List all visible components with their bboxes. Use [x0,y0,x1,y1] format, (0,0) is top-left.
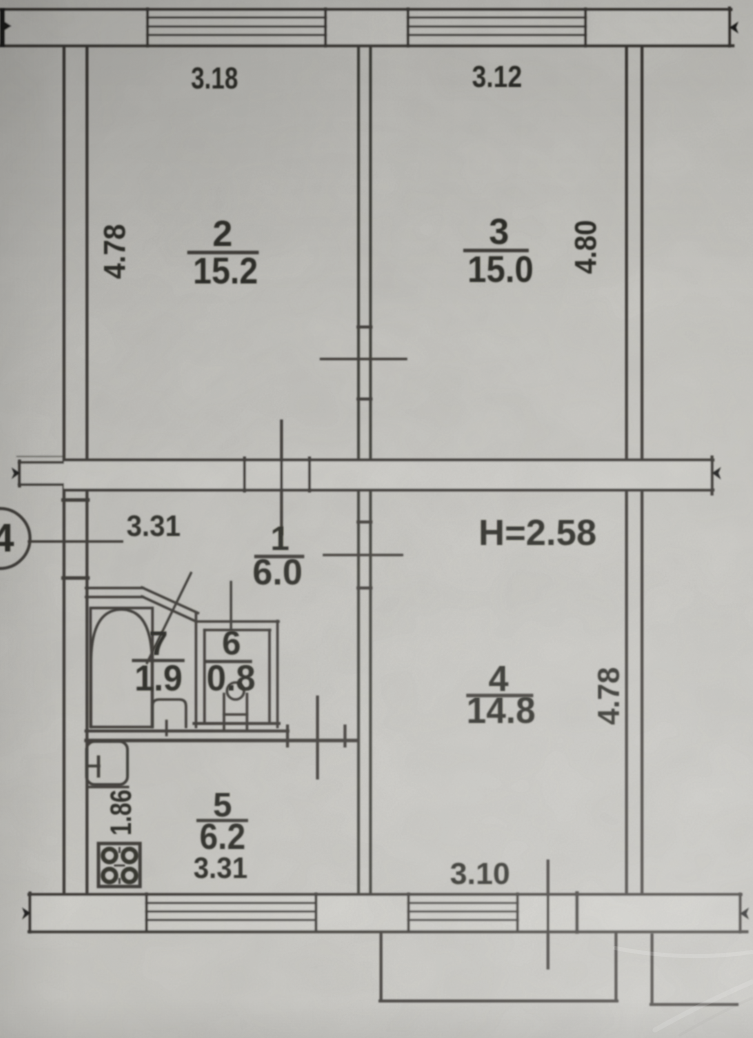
bathroom door swing [147,573,191,663]
bottom band left break [29,893,32,932]
wrinkles bottom right [615,948,752,1035]
tick on wall of room 4 (door) [324,554,402,557]
bathtub [91,608,153,727]
bottom exterior wall band [29,894,741,932]
bottom wall of sanitary block / kitchen top wall [86,730,288,733]
WC door leader [230,582,232,628]
washbasin [153,700,187,728]
bathroom (7) top wall [86,587,143,590]
middle interior wall band [19,462,64,485]
left exterior wall [63,46,66,894]
kitchen door jambs [286,726,289,746]
middle band right break [711,457,714,494]
tick on wall between rooms 2/3 [321,358,406,361]
wall between rooms 2 and 3, continues as wall of rooms 4/5 [357,46,360,459]
balcony of room 4 [380,933,383,1001]
top exterior wall band [0,9,730,46]
axis circle 4 [0,509,30,569]
bottom band right break [739,894,742,932]
jamb right of balcony door [575,893,579,932]
window of room 3 [407,9,410,46]
chamfered wall of bathroom [142,588,198,614]
tick through bottom band (balcony door) [547,861,550,968]
kitchen stove [99,844,141,887]
kitchen door tick [316,697,319,778]
right exterior wall [625,46,628,459]
kitchen sink [87,742,128,785]
fraction bars of room labels [189,251,257,255]
window of room 2 [146,9,149,46]
door jambs in middle band (door to room 2) [243,458,246,491]
loggia bottom right [651,935,654,1003]
WC (6) walls [196,620,279,623]
top band right break [728,8,731,46]
tick through middle band [280,421,283,534]
toilet [227,683,244,700]
window of kitchen [145,894,148,931]
window/balcony door of room 4 [407,894,410,931]
top band left end cap [0,8,5,47]
